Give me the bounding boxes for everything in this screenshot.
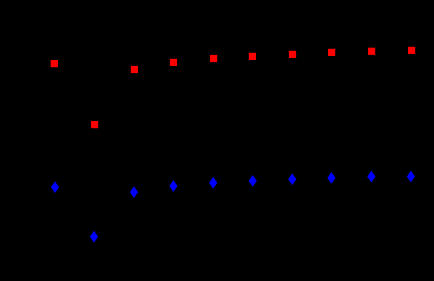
blue diamond marker 5 [209,177,217,189]
blue diamond marker 3 [130,186,138,198]
blue diamond marker 7 [288,173,296,185]
blue diamond marker 1 [51,181,59,193]
blue diamond marker 6 [249,175,257,187]
red square marker 9 [368,48,375,55]
red square marker 2 [91,121,98,128]
blue diamond marker 2 [90,231,98,243]
red square marker 10 [408,47,415,54]
blue diamond marker 8 [327,172,335,184]
blue diamond marker 9 [367,171,375,183]
blue diamond marker 10 [407,171,415,183]
red square marker 7 [289,51,296,58]
red square marker 6 [249,53,256,60]
red square marker 3 [131,66,138,73]
red square marker 4 [170,59,177,66]
red square marker 5 [210,55,217,62]
red square marker 1 [51,60,58,67]
red square marker 8 [328,49,335,56]
blue diamond marker 4 [169,180,177,192]
